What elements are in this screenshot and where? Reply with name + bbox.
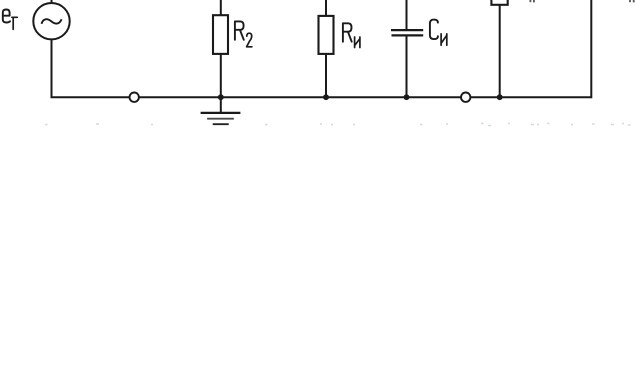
wire top stub of Cи: [406, 0, 408, 30]
bottom rail wire: [51, 96, 592, 98]
partially visible component box (top right): [491, 0, 507, 5]
terminal (open circle) right: [461, 93, 470, 102]
wire top stub of Rи: [325, 0, 327, 16]
ground: [201, 97, 241, 124]
label Cи: [430, 20, 447, 46]
wire from top-right box to bottom rail: [499, 5, 501, 97]
AC source G1: [33, 3, 69, 39]
resistor Rи: [319, 16, 334, 54]
capacitor Cи: [391, 30, 423, 35]
wire R2 to bottom rail: [220, 54, 222, 97]
terminal (open circle) left: [130, 93, 139, 102]
cropped text remnant (top right corner): [630, 0, 634, 2]
label R2: [235, 21, 252, 46]
junction dot Cи: [404, 94, 410, 100]
wire top stub of AC source: [51, 0, 53, 4]
resistor R2: [213, 15, 228, 54]
wire from AC source down to bottom rail: [51, 39, 53, 97]
cropped text remnant (top, near x 532): [530, 0, 534, 2]
label e_г: [3, 10, 17, 30]
junction dot Rи: [323, 94, 329, 100]
label Rи: [343, 23, 360, 47]
junction dot R2/ground: [218, 94, 224, 100]
junction dot right: [497, 94, 503, 100]
wire Cи to bottom rail: [406, 35, 408, 97]
wire top stub of R2: [220, 0, 222, 15]
faint dotted artifact line: [45, 124, 631, 126]
wire Rи to bottom rail: [325, 54, 327, 97]
wire right vertical branch: [590, 0, 592, 98]
